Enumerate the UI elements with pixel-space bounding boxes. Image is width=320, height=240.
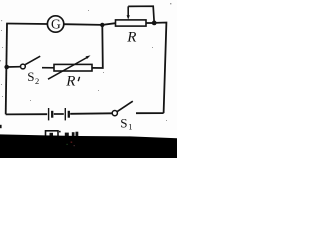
wire: S1 to battery — [70, 112, 112, 115]
switch S1 blade — [117, 101, 133, 112]
wire: battery to bottom-left corner — [6, 113, 48, 115]
wire: between battery cells — [54, 113, 64, 115]
battery cell 1 (long plate) — [48, 108, 50, 120]
switch S1 pivot circle — [112, 111, 117, 116]
battery cell 2 (long plate) — [64, 108, 66, 120]
wire: J2 to top-right corner, down right side — [154, 23, 166, 114]
node J0 on left wire — [4, 65, 9, 70]
svg-text:1: 1 — [128, 121, 132, 131]
galvanometer G — [47, 16, 63, 32]
svg-text:S: S — [27, 69, 34, 84]
wire: top from corner to galvanometer — [6, 23, 47, 26]
caption glyph tops (partially hidden characters) — [46, 131, 79, 137]
svg-text:2: 2 — [35, 76, 39, 86]
resistor R (box) — [116, 20, 147, 26]
black redaction bar at bottom — [0, 134, 177, 158]
svg-text:G: G — [51, 16, 61, 31]
node J1 — [100, 23, 104, 27]
battery cell 1 (short thick plate) — [51, 111, 53, 118]
wire: R to node J2 — [146, 22, 154, 24]
wire: G to node J1 — [64, 23, 102, 26]
svg-text:S: S — [120, 116, 127, 131]
wire: bottom right corner to switch S1 fixed contact — [136, 112, 164, 114]
node J2 — [152, 21, 157, 26]
battery cell 2 (short thick plate) — [68, 111, 70, 118]
jpeg artifact dots inside bar — [71, 142, 73, 143]
wire: shorting loop above R (wiper to J2) — [128, 6, 154, 23]
wire: J0 to switch S2 — [7, 66, 21, 68]
wire: S2 to rheostat R' — [42, 67, 54, 69]
rheostat R' (box) — [54, 64, 92, 71]
switch S2 pivot circle — [21, 64, 26, 69]
black edge mark top-left of bar — [0, 125, 2, 128]
svg-text:R: R — [65, 73, 75, 89]
wire: left vertical (battery left to top-left corner) — [6, 24, 7, 115]
wire: J1 to resistor R — [102, 23, 115, 25]
paper background — [0, 0, 177, 158]
wiper arrow of R — [127, 6, 130, 19]
wire: R' to riser up to J1 — [92, 25, 103, 68]
svg-text:R: R — [126, 29, 136, 45]
rheostat R' arrow — [48, 55, 91, 79]
switch S2 blade — [25, 56, 40, 64]
scan speckles — [0, 3, 171, 121]
